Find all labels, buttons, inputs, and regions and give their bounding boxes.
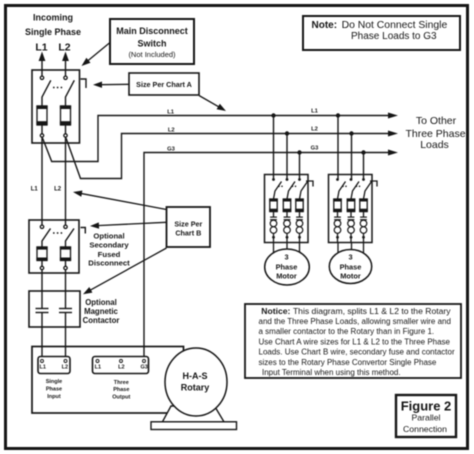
svg-text:Input Terminal when using this: Input Terminal when using this method. [262,368,401,377]
svg-text:L2: L2 [62,365,68,371]
svg-text:Size Per Chart A: Size Per Chart A [136,80,192,89]
svg-text:L2: L2 [54,187,62,193]
svg-text:Phase: Phase [276,262,298,271]
svg-text:sizes to the Rotary Phase Conv: sizes to the Rotary Phase Convertor Sing… [259,358,437,367]
svg-text:a smaller contactor to the Rot: a smaller contactor to the Rotary than i… [259,327,435,336]
svg-text:Note:Do Not Connect Single: Note:Do Not Connect Single [312,20,448,31]
svg-text:Three Phase: Three Phase [405,128,465,140]
svg-text:Motor: Motor [276,271,297,280]
svg-text:Rotary: Rotary [181,382,210,392]
svg-text:L1: L1 [95,365,101,371]
svg-text:Single Phase: Single Phase [25,27,81,37]
svg-text:Optional: Optional [85,298,117,307]
svg-text:Phase: Phase [46,387,62,393]
svg-text:L1: L1 [167,110,175,116]
svg-text:Switch: Switch [137,39,166,49]
svg-text:Chart B: Chart B [175,229,201,238]
svg-text:Contactor: Contactor [83,316,120,325]
svg-text:Magnetic: Magnetic [84,307,118,316]
svg-text:Loads: Loads [420,139,449,151]
svg-text:G3: G3 [311,146,320,152]
svg-text:To Other: To Other [416,115,457,127]
svg-text:Phase: Phase [113,387,129,393]
svg-text:L1: L1 [39,365,45,371]
svg-text:Motor: Motor [340,271,361,280]
svg-text:L1: L1 [311,109,319,115]
svg-text:Figure 2: Figure 2 [401,399,452,414]
svg-text:3: 3 [348,252,352,261]
svg-text:Main Disconnect: Main Disconnect [116,26,188,36]
svg-text:G3: G3 [141,365,148,371]
svg-text:Parallel: Parallel [412,412,441,422]
svg-text:Phase Loads to G3: Phase Loads to G3 [351,31,437,42]
svg-text:Size Per: Size Per [174,220,202,229]
svg-text:H-A-S: H-A-S [183,371,208,381]
svg-text:L2: L2 [168,128,175,134]
svg-text:Input: Input [47,394,61,400]
svg-text:and the Three Phase Loads, all: and the Three Phase Loads, allowing smal… [259,317,451,326]
svg-text:Secondary: Secondary [89,241,129,250]
svg-text:Notice:This diagram, splits L1: Notice:This diagram, splits L1 & L2 to t… [261,306,451,316]
svg-text:L1: L1 [35,42,47,54]
svg-text:L1: L1 [31,187,39,193]
svg-text:Loads. Use Chart B wire, secon: Loads. Use Chart B wire, secondary fuse … [259,348,455,357]
svg-text:(Not Included): (Not Included) [128,50,176,59]
svg-text:L2: L2 [311,127,318,133]
svg-text:Incoming: Incoming [33,12,73,22]
svg-text:L2: L2 [58,42,70,54]
svg-text:3: 3 [284,252,288,261]
svg-text:Three: Three [114,380,129,386]
svg-text:Connection: Connection [403,424,447,434]
svg-text:Use Chart A wire sizes for L1: Use Chart A wire sizes for L1 & L2 to th… [259,337,451,346]
svg-text:Phase: Phase [340,262,362,271]
svg-text:Output: Output [112,395,130,401]
svg-text:Single: Single [46,379,63,385]
svg-text:G3: G3 [167,147,176,153]
svg-text:Disconnect: Disconnect [88,258,130,267]
svg-text:Optional: Optional [93,231,124,240]
svg-text:L2: L2 [118,365,124,371]
